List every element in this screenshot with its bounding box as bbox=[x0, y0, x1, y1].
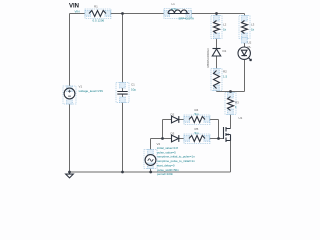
svg-text:1k: 1k bbox=[251, 27, 255, 31]
svg-text:L2: L2 bbox=[223, 23, 227, 27]
svg-text:0.5 1206: 0.5 1206 bbox=[93, 19, 105, 23]
svg-text:5m: 5m bbox=[195, 112, 200, 116]
svg-text:1.5: 1.5 bbox=[223, 75, 228, 79]
svg-text:R2: R2 bbox=[223, 70, 227, 74]
svg-text:D2: D2 bbox=[171, 112, 175, 116]
svg-text:1k: 1k bbox=[223, 27, 227, 31]
svg-text:D1: D1 bbox=[223, 49, 227, 53]
svg-text:R1: R1 bbox=[94, 4, 98, 8]
svg-text:D3: D3 bbox=[171, 131, 175, 135]
svg-text:5m: 5m bbox=[195, 131, 200, 135]
svg-text:L1: L1 bbox=[172, 2, 176, 6]
svg-text:PL: PL bbox=[248, 45, 252, 49]
svg-text:SRP4020TA: SRP4020TA bbox=[179, 17, 194, 21]
svg-text:C1: C1 bbox=[131, 83, 135, 87]
svg-text:4.7µ: 4.7µ bbox=[171, 7, 177, 11]
svg-text:VIN: VIN bbox=[69, 3, 79, 9]
svg-text:MBRS340RG3: MBRS340RG3 bbox=[206, 48, 210, 68]
svg-text:L3: L3 bbox=[251, 23, 255, 27]
svg-text:10µ: 10µ bbox=[131, 87, 136, 91]
svg-text:U1: U1 bbox=[239, 116, 243, 120]
svg-text:R3: R3 bbox=[235, 100, 239, 104]
svg-text:period=100n: period=100n bbox=[157, 172, 174, 176]
svg-text:VIN: VIN bbox=[75, 10, 80, 14]
svg-text:voltage_level=VIN: voltage_level=VIN bbox=[79, 89, 103, 93]
